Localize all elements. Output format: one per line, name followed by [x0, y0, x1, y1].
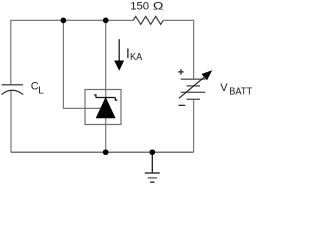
svg-text:BATT: BATT — [229, 87, 252, 98]
capacitor CL curved bottom plate — [2, 90, 24, 94]
svg-text:KA: KA — [130, 52, 143, 63]
U1 cathode bar right hook — [115, 98, 117, 101]
wire: ground stub — [151, 152, 153, 173]
junction: top rail / cathode rail — [103, 18, 109, 24]
shunt regulator U1 (TL431) box — [85, 90, 121, 125]
junction: top rail / reference branch — [61, 18, 67, 24]
battery VBATT plate 3 (long) — [181, 91, 206, 93]
battery VBATT plate 4 (short, -) — [187, 98, 201, 100]
battery variable arrow — [179, 77, 204, 98]
battery + sign — [178, 71, 184, 73]
U1 cathode bar — [96, 97, 116, 99]
wire: battery - terminal down to bottom rail — [193, 99, 195, 152]
battery VBATT plate 2 (short) — [187, 85, 201, 87]
junction: bottom rail / anode rail — [103, 149, 109, 155]
battery - sign — [179, 104, 186, 106]
ground symbol — [145, 172, 160, 174]
wire: reference branch from top rail to U1 — [63, 20, 102, 108]
wire: top rail from resistor to right corner, down to battery + — [163, 20, 193, 79]
U1 cathode bar left hook — [94, 95, 96, 98]
junction: bottom rail / ground stub — [149, 149, 155, 155]
U1 anode triangle — [96, 97, 116, 118]
wire: bottom rail — [11, 151, 194, 153]
wire: center cathode rail through U1 — [105, 20, 107, 152]
capacitor CL top plate — [2, 84, 24, 86]
wire: top rail from top-left corner to resistor — [11, 20, 133, 84]
svg-text:150: 150 — [130, 1, 149, 13]
resistor R1 zigzag — [133, 16, 163, 24]
wire: left rail below capacitor down to bottom rail — [10, 91, 12, 152]
svg-text:L: L — [38, 85, 44, 96]
svg-text:Ω: Ω — [153, 1, 164, 13]
battery VBATT plate 1 (long, +) — [181, 78, 206, 80]
current arrow IKA — [118, 39, 120, 62]
svg-text:V: V — [220, 82, 228, 94]
